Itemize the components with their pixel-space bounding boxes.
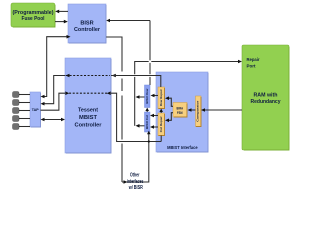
pad 5 xyxy=(13,124,20,130)
svg-text:MBIST Interface: MBIST Interface xyxy=(167,145,198,150)
arrow Row Repair to BISR Row xyxy=(153,95,159,97)
pad 1 xyxy=(13,92,20,98)
wire Comparator to BIRA FSM xyxy=(190,109,196,111)
svg-text:BISR Col: BISR Col xyxy=(145,115,149,129)
junction dot xyxy=(148,140,150,142)
wire BISR to fuse xyxy=(57,10,69,12)
repair bus stub from BISR Col xyxy=(138,125,145,127)
svg-text:BIRA: BIRA xyxy=(177,106,184,110)
svg-text:Controller: Controller xyxy=(74,27,101,33)
svg-text:Fuse Pool: Fuse Pool xyxy=(22,16,46,22)
other interfaces label xyxy=(127,173,144,191)
arrow into other interfaces xyxy=(124,180,128,184)
BISR Row box xyxy=(145,85,151,108)
svg-text:Redundancy: Redundancy xyxy=(251,99,281,105)
wire fuse to BISR xyxy=(55,21,67,23)
repair bus stub from BISR Row xyxy=(138,96,145,98)
svg-text:RAM with: RAM with xyxy=(254,93,278,99)
wire BISR chain out to other interfaces xyxy=(106,37,149,182)
svg-text:Col Repair: Col Repair xyxy=(159,115,163,132)
BISR Col box xyxy=(145,112,151,132)
Tessent MBIST controller box xyxy=(65,58,111,153)
repair bus to RAM repair port xyxy=(135,62,240,126)
wire vertical into BISR and TAP xyxy=(43,37,67,97)
dashed line 2 left continuation to TAP xyxy=(41,93,66,110)
svg-text:FSM: FSM xyxy=(177,111,183,115)
fuse pool box xyxy=(11,3,55,27)
Col Repair box xyxy=(158,113,165,136)
wire BISR chain in from BISR Row xyxy=(108,21,150,86)
Row Repair box xyxy=(158,87,165,109)
svg-text:Repair: Repair xyxy=(247,57,260,62)
wire RAM to Comparator xyxy=(203,109,242,111)
svg-text:Port: Port xyxy=(247,63,256,68)
svg-text:Controller: Controller xyxy=(75,122,103,128)
svg-text:TAP: TAP xyxy=(32,108,40,112)
svg-text:Other: Other xyxy=(130,173,140,179)
dashed line 1 right continuation to Row Repair xyxy=(111,76,161,88)
wire FSM to Col Repair xyxy=(167,113,173,121)
arrow up into BISR Col bottom xyxy=(147,131,151,134)
pad wires xyxy=(19,95,30,127)
svg-text:w/ BISR: w/ BISR xyxy=(128,185,143,191)
arrow Col Repair to BISR Col lower xyxy=(152,126,158,128)
svg-text:Tessent: Tessent xyxy=(78,107,98,113)
pad 4 xyxy=(13,116,20,122)
pad 2 xyxy=(13,100,20,106)
dashed line 1 through Tessent xyxy=(66,75,110,77)
pad 3 xyxy=(13,108,20,114)
TAP to Tessent double arrow xyxy=(43,119,64,121)
dashed line 1 left continuation to TAP xyxy=(43,76,66,104)
svg-text:Row Repair: Row Repair xyxy=(159,88,163,106)
RAM box xyxy=(242,45,289,150)
Comparator box xyxy=(196,96,202,127)
svg-text:BISR Row: BISR Row xyxy=(145,88,149,104)
svg-text:Comparator: Comparator xyxy=(196,100,200,122)
dashed line 2 right continuation to Col Repair xyxy=(111,93,161,141)
dashed line 2 through Tessent xyxy=(66,92,111,94)
BISR controller box xyxy=(68,4,106,43)
chain arrow BISR Col to BISR Row xyxy=(146,110,148,112)
svg-text:BISR: BISR xyxy=(80,20,93,26)
chain arrow Col Repair to Row Repair xyxy=(160,111,162,113)
BIRA FSM box xyxy=(173,103,187,118)
arrow Col Repair to BISR Col upper xyxy=(152,115,158,117)
svg-text:MBIST: MBIST xyxy=(79,115,97,121)
MBIST interface box xyxy=(156,72,208,152)
wire FSM to Row Repair xyxy=(167,98,173,106)
TAP box xyxy=(30,92,41,127)
